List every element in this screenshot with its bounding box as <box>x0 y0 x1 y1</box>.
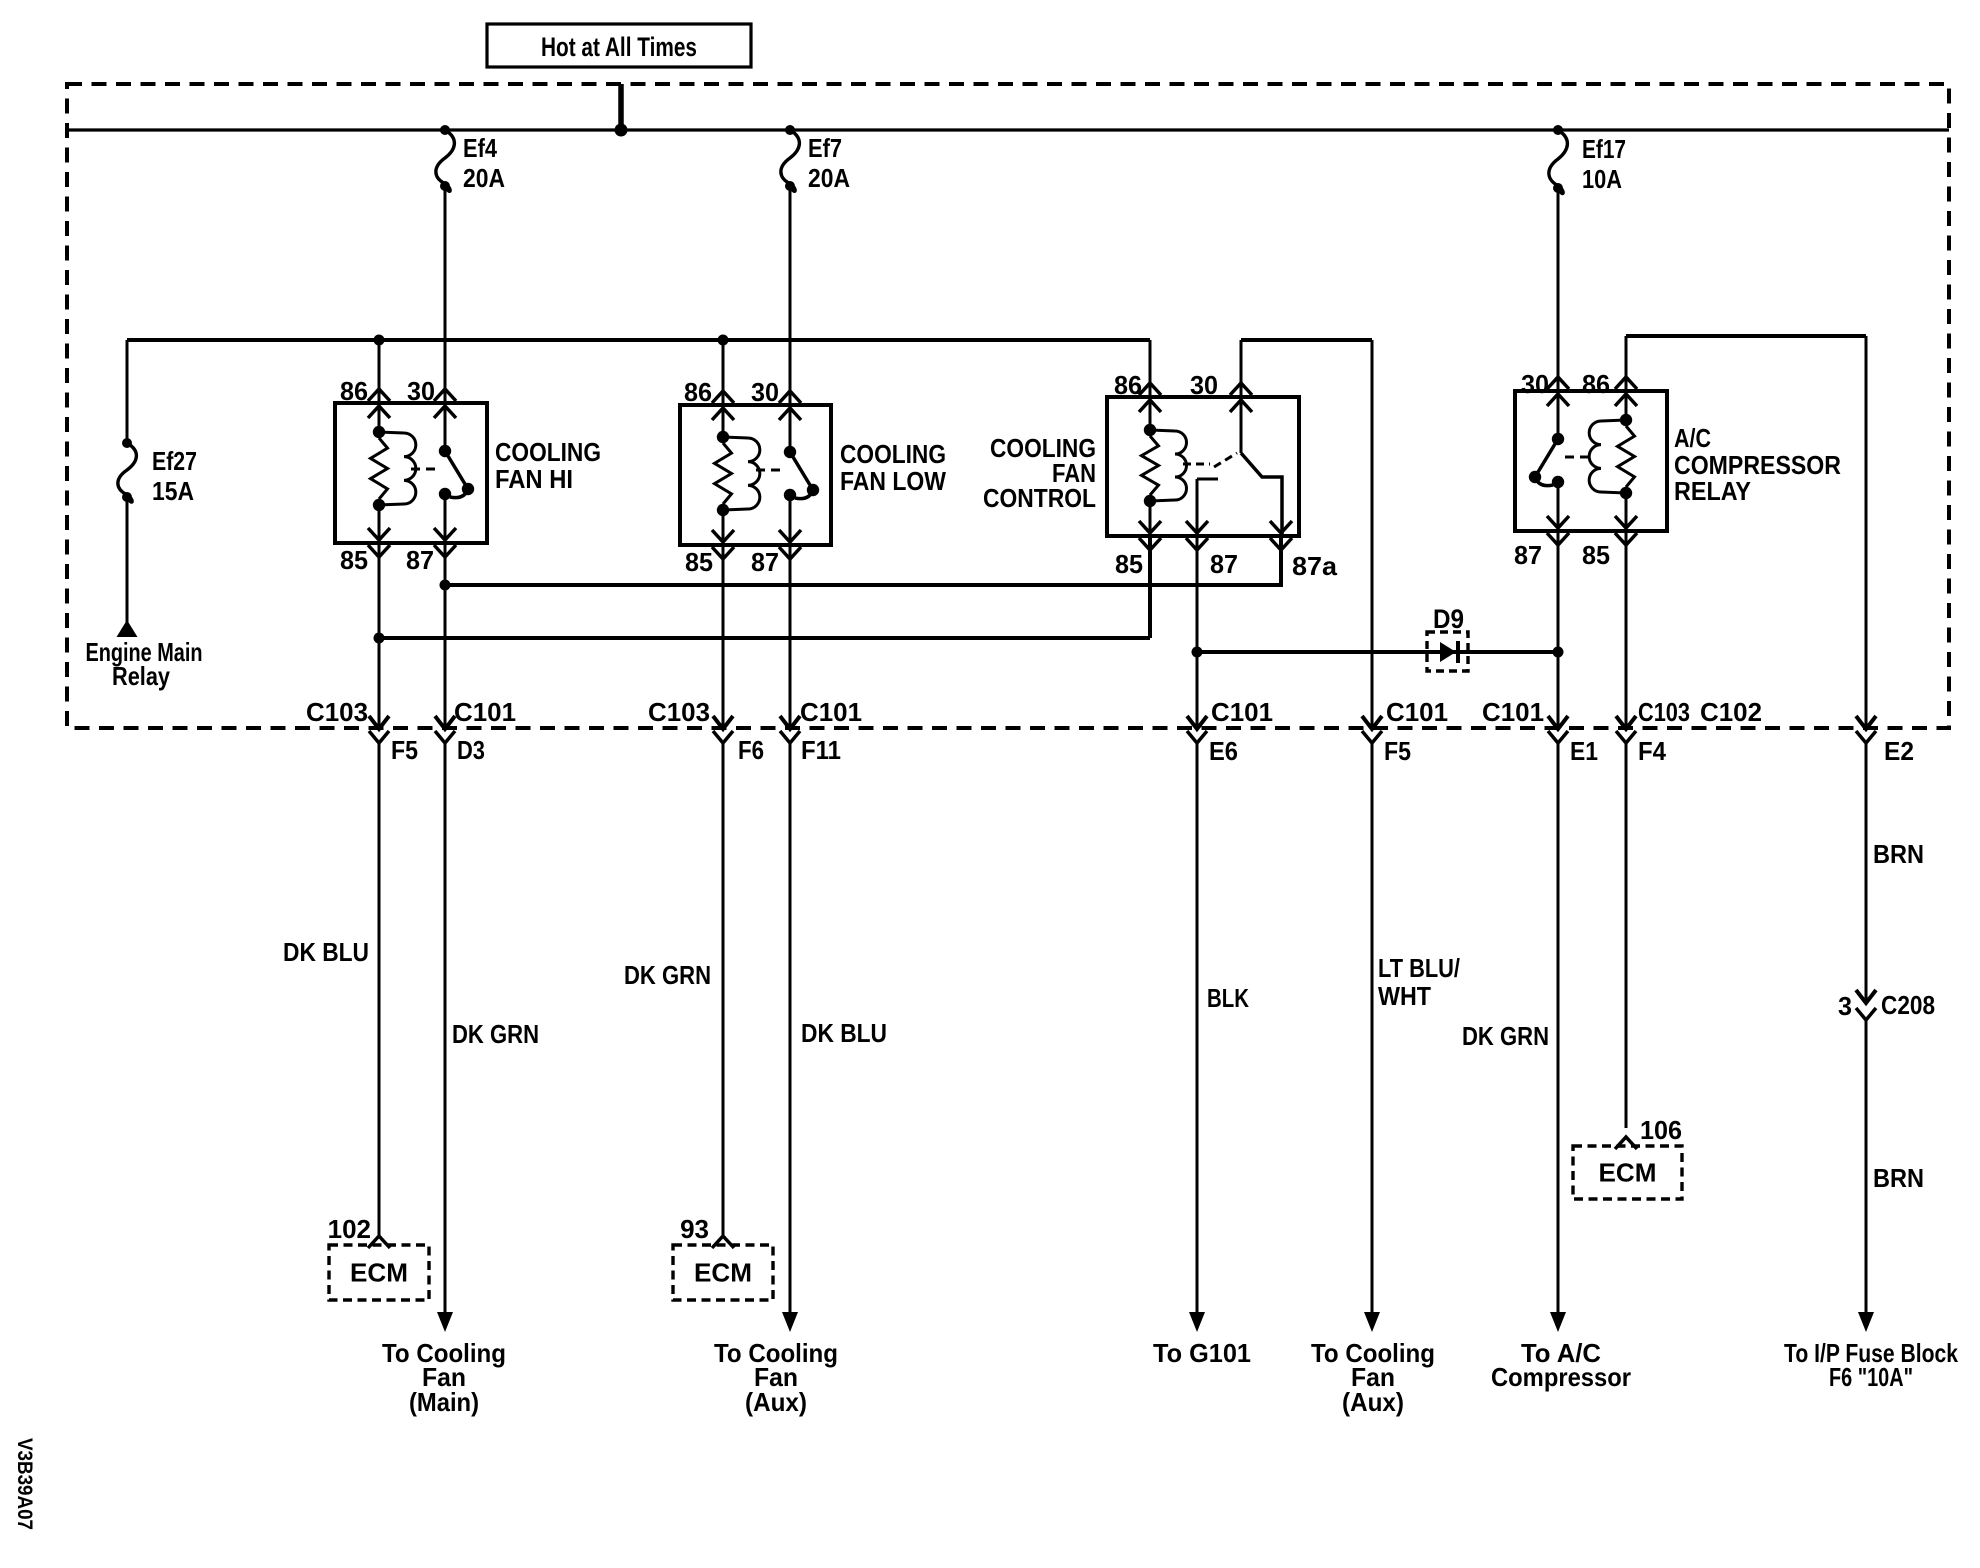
svg-text:85: 85 <box>340 545 368 575</box>
svg-text:BLK: BLK <box>1207 983 1249 1013</box>
svg-text:Relay: Relay <box>112 661 170 691</box>
svg-text:Ef7: Ef7 <box>808 133 842 163</box>
svg-text:Ef27: Ef27 <box>152 446 197 476</box>
svg-text:V3B39A07: V3B39A07 <box>13 1438 36 1530</box>
svg-text:(Main): (Main) <box>409 1387 479 1417</box>
svg-text:A/C: A/C <box>1674 423 1711 453</box>
svg-text:F6 "10A": F6 "10A" <box>1829 1362 1913 1392</box>
svg-text:87: 87 <box>1514 540 1542 570</box>
svg-text:RELAY: RELAY <box>1674 476 1751 506</box>
svg-text:15A: 15A <box>152 476 194 506</box>
svg-text:D3: D3 <box>457 735 485 765</box>
svg-text:86: 86 <box>1114 370 1142 400</box>
svg-text:E6: E6 <box>1209 736 1238 766</box>
svg-text:C208: C208 <box>1881 990 1935 1020</box>
svg-text:86: 86 <box>684 377 712 407</box>
svg-text:E2: E2 <box>1884 736 1914 766</box>
svg-text:FAN LOW: FAN LOW <box>840 466 946 496</box>
svg-text:30: 30 <box>1521 369 1549 399</box>
svg-text:Ef17: Ef17 <box>1582 134 1626 164</box>
svg-text:20A: 20A <box>463 163 505 193</box>
svg-text:ECM: ECM <box>1599 1158 1657 1188</box>
svg-text:85: 85 <box>1115 549 1143 579</box>
svg-text:LT BLU/: LT BLU/ <box>1378 953 1460 983</box>
svg-text:COOLING: COOLING <box>840 439 946 469</box>
svg-text:Hot at All Times: Hot at All Times <box>541 32 697 62</box>
svg-text:87a: 87a <box>1292 551 1338 581</box>
svg-text:106: 106 <box>1640 1115 1682 1145</box>
svg-text:C103: C103 <box>648 697 710 727</box>
svg-text:E1: E1 <box>1570 736 1598 766</box>
svg-text:87: 87 <box>751 547 779 577</box>
svg-text:86: 86 <box>1582 369 1610 399</box>
svg-text:C101: C101 <box>800 697 862 727</box>
svg-text:DK GRN: DK GRN <box>1462 1021 1549 1051</box>
svg-text:3: 3 <box>1838 991 1852 1021</box>
svg-text:C103: C103 <box>1638 697 1690 727</box>
svg-text:Compressor: Compressor <box>1491 1362 1631 1392</box>
svg-text:To G101: To G101 <box>1153 1338 1251 1368</box>
svg-text:20A: 20A <box>808 163 850 193</box>
svg-text:F11: F11 <box>801 735 841 765</box>
svg-text:93: 93 <box>680 1214 709 1244</box>
svg-text:DK BLU: DK BLU <box>801 1018 887 1048</box>
svg-text:F4: F4 <box>1638 736 1666 766</box>
svg-text:87: 87 <box>1210 549 1238 579</box>
svg-text:BRN: BRN <box>1873 839 1924 869</box>
svg-text:C102: C102 <box>1700 697 1762 727</box>
svg-text:DK GRN: DK GRN <box>624 960 711 990</box>
svg-text:DK GRN: DK GRN <box>452 1019 539 1049</box>
svg-text:102: 102 <box>328 1214 371 1244</box>
svg-text:10A: 10A <box>1582 164 1622 194</box>
svg-text:C101: C101 <box>1482 697 1544 727</box>
svg-text:87: 87 <box>406 545 434 575</box>
svg-text:BRN: BRN <box>1873 1163 1924 1193</box>
svg-text:Ef4: Ef4 <box>463 133 497 163</box>
svg-text:ECM: ECM <box>350 1258 408 1288</box>
svg-text:(Aux): (Aux) <box>1342 1387 1404 1417</box>
svg-text:C103: C103 <box>306 697 368 727</box>
svg-text:C101: C101 <box>1211 697 1273 727</box>
svg-text:F5: F5 <box>391 735 418 765</box>
svg-text:86: 86 <box>340 376 368 406</box>
svg-text:30: 30 <box>407 376 435 406</box>
svg-text:D9: D9 <box>1433 604 1464 634</box>
svg-text:30: 30 <box>751 377 779 407</box>
svg-text:(Aux): (Aux) <box>745 1387 807 1417</box>
svg-text:F5: F5 <box>1384 736 1411 766</box>
svg-text:85: 85 <box>685 547 713 577</box>
svg-text:C101: C101 <box>1386 697 1448 727</box>
svg-text:ECM: ECM <box>694 1258 752 1288</box>
svg-text:F6: F6 <box>738 735 764 765</box>
svg-text:85: 85 <box>1582 540 1610 570</box>
svg-text:CONTROL: CONTROL <box>983 483 1096 513</box>
svg-text:30: 30 <box>1190 370 1218 400</box>
svg-text:FAN HI: FAN HI <box>495 464 573 494</box>
svg-text:DK BLU: DK BLU <box>283 937 369 967</box>
svg-text:WHT: WHT <box>1378 981 1431 1011</box>
svg-text:COOLING: COOLING <box>495 437 601 467</box>
svg-text:C101: C101 <box>454 697 516 727</box>
